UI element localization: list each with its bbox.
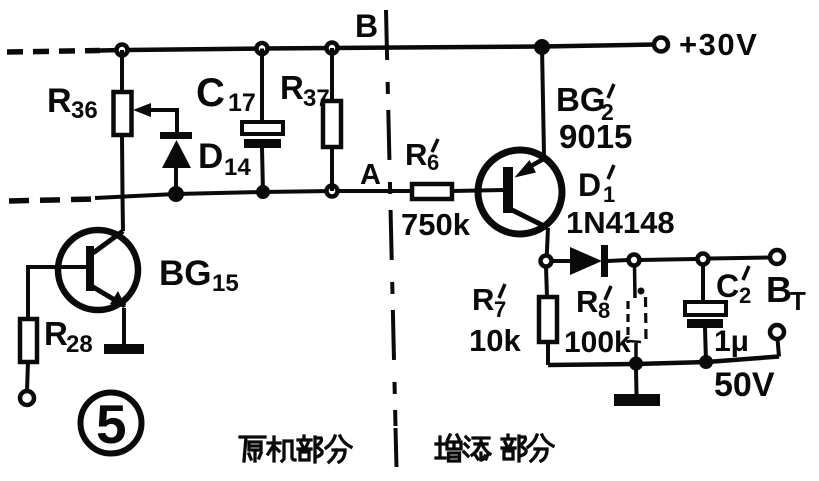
wire R7 bottom	[546, 342, 550, 365]
figure number circle 5	[81, 393, 142, 454]
wire BG15 emitter down	[122, 308, 126, 345]
svg-text:8: 8	[598, 298, 610, 323]
svg-text:10k: 10k	[469, 323, 521, 358]
svg-text:6: 6	[427, 150, 439, 175]
transistor BG2 emitter stroke	[531, 157, 547, 166]
transistor BG15 emitter arrow	[110, 291, 126, 307]
transistor BG15 circle	[58, 230, 138, 310]
svg-text:1μ: 1μ	[714, 325, 749, 358]
wire A-line dashed left segment	[9, 199, 95, 201]
svg-text:5: 5	[96, 393, 127, 455]
node C2 top (sketchy ring)	[698, 254, 709, 265]
svg-text:R: R	[405, 137, 427, 172]
wire C17 top	[260, 49, 264, 123]
diode D1 cathode bar	[601, 245, 608, 277]
terminal BT top	[770, 250, 784, 264]
capacitor C17 top plate	[242, 122, 283, 134]
wire bottom rail	[548, 357, 779, 366]
ground bar BG15 emitter	[104, 344, 144, 354]
text 原机部分 (hand glyphs)	[240, 436, 351, 462]
wire C2 top	[701, 265, 705, 302]
wire R8 top	[633, 266, 637, 298]
ground bar right	[614, 394, 660, 406]
svg-text:R: R	[576, 284, 598, 319]
wire R7 top	[546, 267, 547, 298]
svg-text:50V: 50V	[714, 366, 775, 404]
svg-text:C: C	[716, 268, 739, 304]
wire top rail solid	[100, 45, 655, 51]
svg-text:D: D	[578, 167, 601, 203]
capacitor C2 top plate	[685, 302, 726, 315]
svg-text:36: 36	[71, 97, 98, 124]
wire R6 to BG2 base	[452, 190, 504, 191]
text 增添部分 (hand glyphs)	[436, 435, 553, 461]
junction dot C2 bottom	[700, 356, 712, 368]
transistor BG2 emitter arrow (PNP)	[515, 160, 537, 178]
transistor BG2 base bar	[503, 167, 513, 213]
svg-text:17: 17	[228, 89, 256, 117]
wire D14 anode	[174, 168, 178, 194]
transistor BG15 collector stroke	[93, 231, 123, 253]
wire D1 to node	[608, 260, 628, 261]
wire A-line solid	[95, 191, 412, 198]
junction dot D14 / A-line	[169, 187, 183, 201]
node top of R37	[327, 43, 338, 54]
svg-text:37: 37	[303, 85, 330, 112]
svg-text:1: 1	[603, 182, 615, 207]
svg-text:BG: BG	[556, 81, 606, 118]
junction dot C17 bottom	[257, 186, 269, 198]
node BG2 collector / R7 / D1	[541, 256, 552, 267]
svg-text:D: D	[198, 137, 223, 176]
svg-text:750k: 750k	[401, 207, 471, 242]
svg-text:14: 14	[224, 154, 251, 181]
terminal R28	[20, 391, 34, 405]
diode D14 triangle	[162, 140, 191, 168]
svg-text:15: 15	[212, 270, 239, 297]
stray dot R8	[638, 288, 645, 295]
wire to BT top terminal	[709, 258, 770, 259]
transistor BG2 collector stroke	[510, 209, 548, 228]
svg-text:R: R	[47, 82, 72, 120]
node top of R36	[117, 45, 128, 56]
wire C2 bottom	[705, 328, 706, 362]
wire node to D1	[552, 259, 570, 263]
transistor BG2 circle	[478, 150, 562, 234]
svg-text:+30V: +30V	[679, 27, 758, 62]
wire BG15 base left	[28, 267, 86, 319]
svg-text:B: B	[766, 269, 792, 310]
svg-text:T: T	[790, 286, 806, 316]
wire R6 to A-line handled above; resistor R6'	[412, 184, 452, 199]
svg-text:R: R	[472, 282, 494, 317]
capacitor C2 bottom plate	[687, 319, 723, 328]
wire R36 top	[120, 50, 124, 92]
svg-text:7: 7	[494, 297, 506, 322]
wire R36 bottom to BG15 collector	[122, 135, 123, 231]
wire top rail dashed left segment	[7, 51, 100, 53]
node B dashed separator line	[386, 10, 396, 426]
wire BG2 emitter to +30V junction	[542, 47, 544, 155]
wire node to C2 top	[640, 259, 696, 260]
diode D14 cathode bar	[160, 132, 192, 139]
svg-text:100k: 100k	[564, 326, 631, 359]
resistor R28	[20, 319, 37, 362]
resistor R7	[539, 297, 557, 342]
wire BG2 collector down	[547, 228, 549, 261]
transistor BG15 base bar	[86, 246, 94, 291]
wire C17 bottom	[262, 148, 263, 192]
svg-text:28: 28	[66, 331, 93, 358]
terminal +30V	[654, 38, 668, 52]
svg-text:A: A	[360, 159, 381, 191]
R36 wiper arrow	[148, 110, 177, 133]
capacitor C17 bottom plate	[244, 139, 281, 148]
node D1 cathode / R8	[629, 255, 640, 266]
svg-text:R: R	[44, 315, 68, 352]
svg-text:2: 2	[739, 283, 751, 308]
wire ground right	[634, 369, 639, 394]
svg-text:9015: 9015	[559, 118, 632, 155]
svg-text:C: C	[196, 71, 225, 115]
resistor R37	[323, 101, 341, 147]
wire R37 bottom	[330, 147, 334, 191]
junction dot R8 bottom	[630, 358, 642, 370]
wire R37 top	[330, 48, 334, 101]
diode D1 triangle	[570, 247, 602, 275]
node top of C17	[257, 43, 268, 54]
svg-text:BG: BG	[159, 254, 212, 293]
wire R8 bottom	[634, 343, 638, 364]
resistor R8 (faint)	[626, 301, 629, 343]
svg-text:R: R	[280, 69, 304, 106]
wire BT bottom terminal	[778, 339, 780, 357]
svg-text:B: B	[355, 8, 378, 44]
wire R28 bottom	[27, 362, 28, 391]
terminal BT bottom	[770, 325, 784, 339]
resistor R36	[114, 92, 132, 135]
junction dot top rail / BG2 emitter	[535, 40, 549, 54]
transistor BG15 emitter stroke	[93, 287, 125, 306]
node A at R37 bottom	[327, 186, 338, 197]
svg-text:1N4148: 1N4148	[566, 205, 675, 240]
